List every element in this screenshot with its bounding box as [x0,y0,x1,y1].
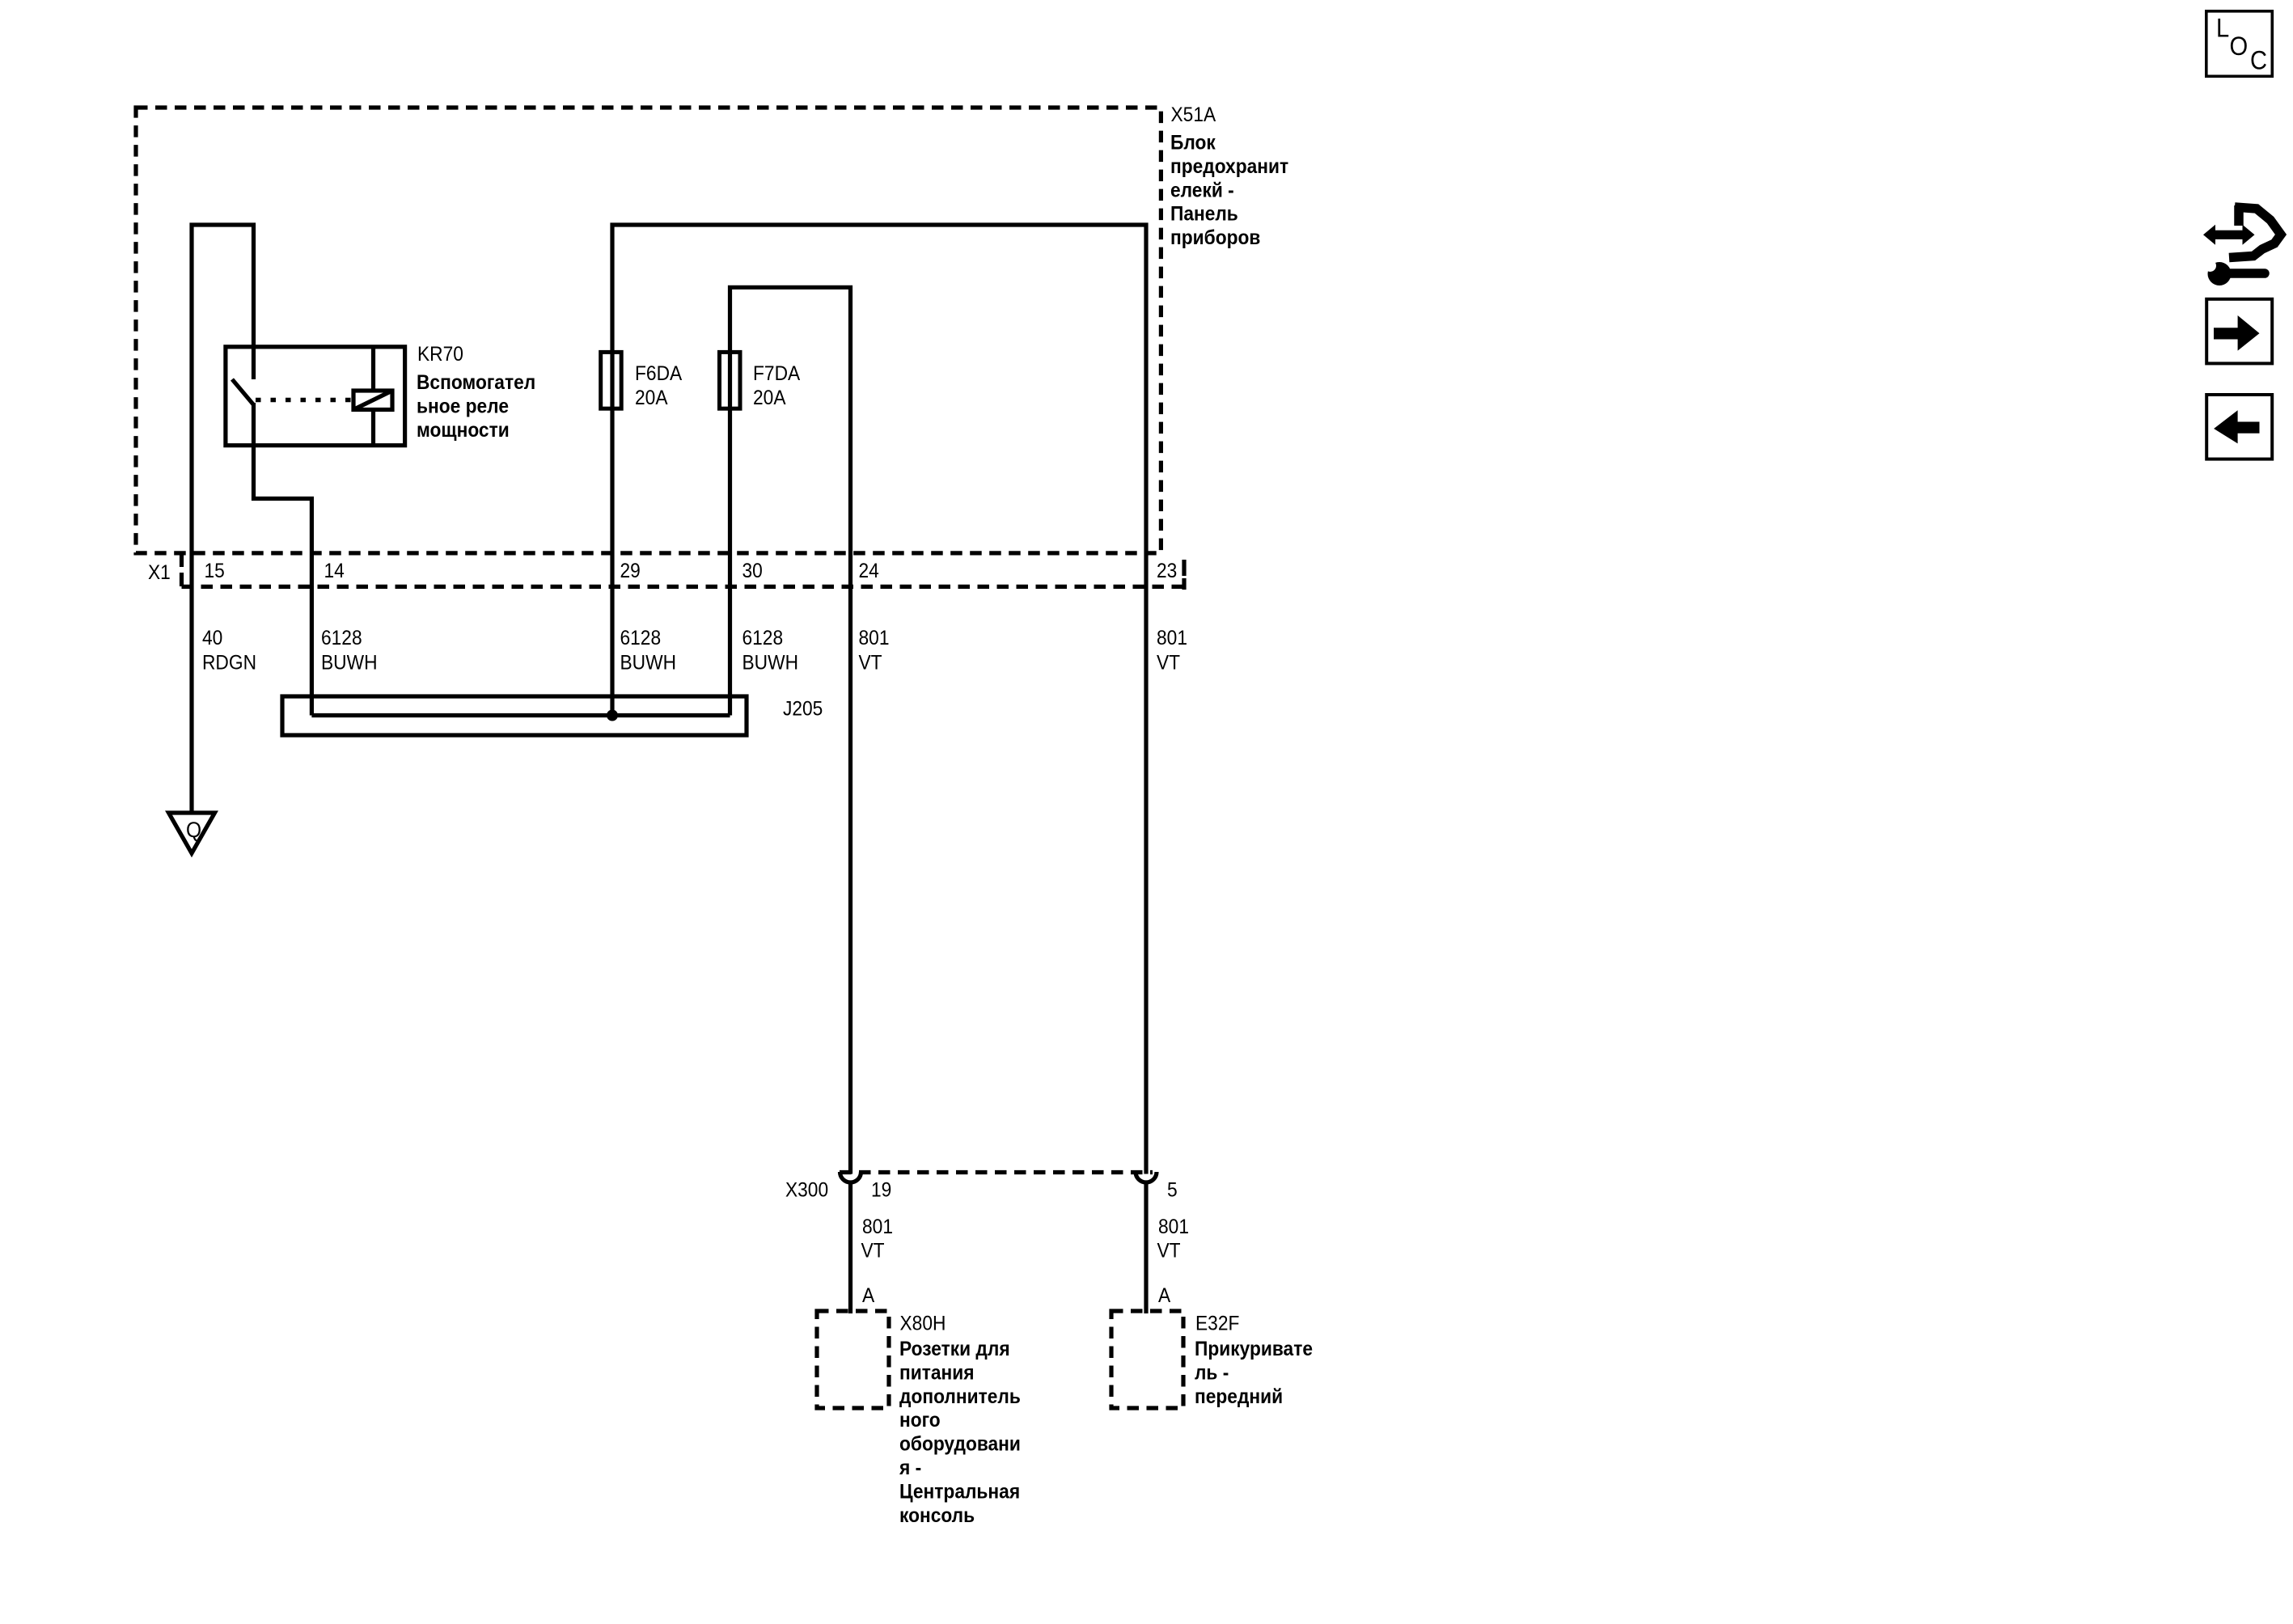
svg-text:RDGN: RDGN [202,652,256,675]
svg-text:VT: VT [1157,652,1180,675]
svg-text:Блок: Блок [1170,132,1216,154]
svg-text:801: 801 [1157,627,1187,649]
svg-text:VT: VT [861,1240,885,1262]
svg-text:X1: X1 [148,561,171,584]
svg-text:14: 14 [324,560,345,582]
svg-text:30: 30 [742,560,763,582]
svg-text:дополнитель: дополнитель [899,1385,1021,1408]
svg-text:Панель: Панель [1170,203,1238,226]
svg-text:оборудовани: оборудовани [899,1433,1021,1456]
svg-text:801: 801 [862,1216,893,1238]
svg-text:15: 15 [205,560,225,582]
svg-text:Прикуривате: Прикуривате [1195,1338,1313,1360]
svg-text:X300: X300 [785,1179,828,1202]
svg-text:23: 23 [1157,560,1177,582]
svg-text:5: 5 [1167,1179,1178,1202]
svg-text:X51A: X51A [1171,104,1216,126]
svg-text:J205: J205 [783,698,823,721]
svg-text:801: 801 [859,627,890,649]
svg-text:BUWH: BUWH [321,652,378,675]
svg-text:Вспомогател: Вспомогател [417,371,535,394]
svg-text:40: 40 [202,627,222,649]
svg-text:передний: передний [1195,1385,1283,1408]
svg-text:мощности: мощности [417,419,510,442]
svg-text:питания: питания [899,1361,975,1384]
svg-text:F6DA: F6DA [635,362,682,385]
svg-text:KR70: KR70 [417,343,463,366]
svg-text:6128: 6128 [321,627,362,649]
svg-text:L: L [2216,14,2229,43]
svg-text:29: 29 [620,560,641,582]
svg-text:приборов: приборов [1170,226,1260,249]
svg-text:Q: Q [186,818,201,842]
svg-text:19: 19 [871,1179,891,1202]
svg-text:O: O [2230,32,2249,61]
svg-text:BUWH: BUWH [620,652,677,675]
svg-text:Розетки для: Розетки для [899,1338,1010,1360]
svg-text:C: C [2250,46,2267,75]
svg-text:24: 24 [859,560,879,582]
svg-text:A: A [862,1284,874,1307]
svg-text:20A: 20A [753,387,786,409]
svg-text:Центральная: Центральная [899,1480,1020,1503]
svg-text:6128: 6128 [620,627,662,649]
svg-text:801: 801 [1158,1216,1189,1238]
svg-text:VT: VT [1157,1240,1181,1262]
svg-text:6128: 6128 [742,627,784,649]
svg-text:елекй -: елекй - [1170,179,1234,201]
svg-text:20A: 20A [635,387,668,409]
svg-text:предохранит: предохранит [1170,155,1288,178]
svg-text:я -: я - [899,1457,921,1479]
svg-text:E32F: E32F [1195,1313,1239,1335]
svg-text:BUWH: BUWH [742,652,799,675]
svg-text:VT: VT [859,652,882,675]
svg-text:ль -: ль - [1195,1361,1229,1384]
svg-text:ного: ного [899,1409,941,1432]
svg-text:A: A [1158,1284,1170,1307]
svg-text:X80H: X80H [900,1313,946,1335]
svg-text:F7DA: F7DA [753,362,800,385]
svg-text:консоль: консоль [899,1504,975,1527]
svg-text:ьное реле: ьное реле [417,395,509,417]
